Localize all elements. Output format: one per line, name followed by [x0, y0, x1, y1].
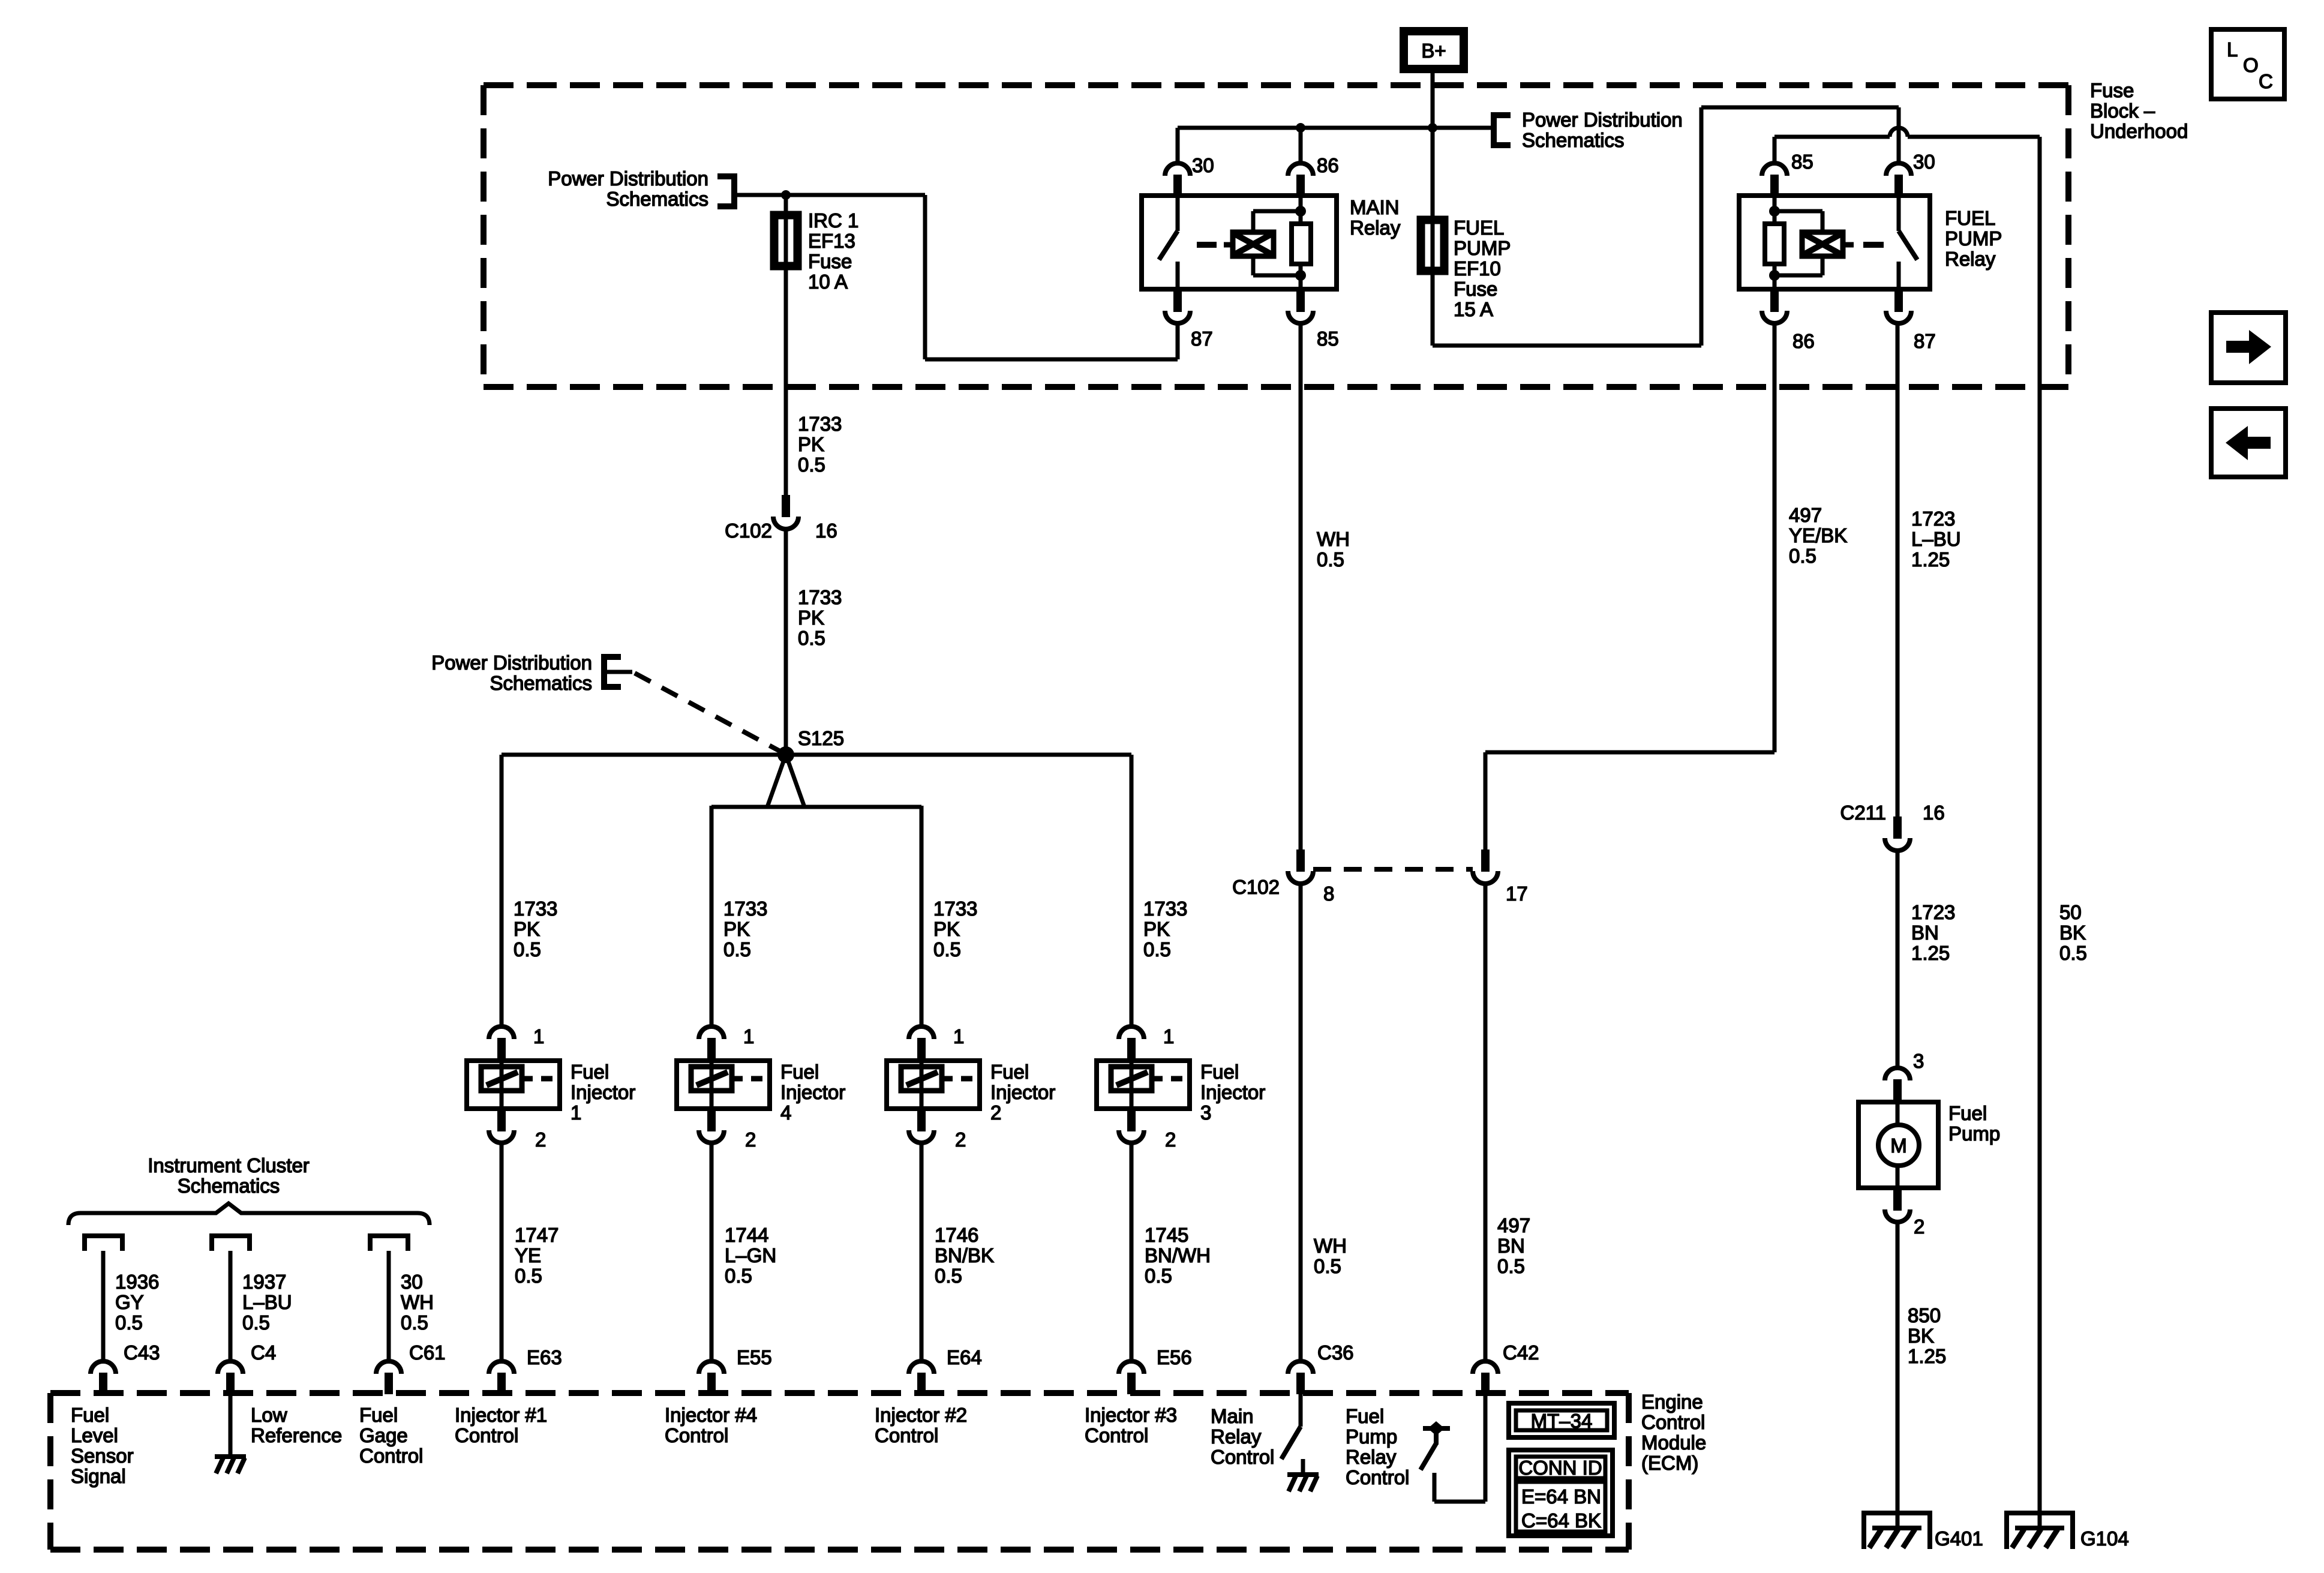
svg-text:Control: Control — [875, 1424, 938, 1446]
svg-text:EF13: EF13 — [808, 230, 855, 252]
svg-text:Signal: Signal — [71, 1465, 126, 1487]
svg-text:Pump: Pump — [1346, 1425, 1397, 1448]
svg-text:PUMP: PUMP — [1454, 237, 1511, 259]
svg-text:C=64 BK: C=64 BK — [1521, 1509, 1601, 1532]
svg-text:1746: 1746 — [935, 1224, 978, 1246]
svg-text:Underhood: Underhood — [2090, 120, 2188, 142]
svg-text:YE/BK: YE/BK — [1789, 524, 1847, 547]
svg-text:Main: Main — [1211, 1405, 1254, 1427]
svg-text:PK: PK — [933, 918, 960, 940]
svg-text:1733: 1733 — [798, 413, 842, 435]
svg-text:10 A: 10 A — [808, 271, 848, 293]
svg-text:1733: 1733 — [723, 897, 767, 920]
svg-text:2: 2 — [1914, 1215, 1924, 1238]
svg-text:0.5: 0.5 — [723, 938, 751, 960]
svg-text:2: 2 — [1165, 1128, 1176, 1151]
svg-text:1936: 1936 — [115, 1271, 159, 1293]
svg-text:WH: WH — [1314, 1235, 1347, 1257]
svg-text:0.5: 0.5 — [935, 1265, 962, 1287]
svg-text:CONN ID: CONN ID — [1518, 1457, 1602, 1479]
svg-text:30: 30 — [401, 1271, 423, 1293]
svg-text:Fuel: Fuel — [1346, 1405, 1384, 1427]
svg-text:0.5: 0.5 — [798, 454, 825, 476]
svg-text:Fuel: Fuel — [990, 1061, 1029, 1083]
svg-text:850: 850 — [1908, 1304, 1941, 1326]
svg-text:Fuel: Fuel — [1200, 1061, 1239, 1083]
svg-text:497: 497 — [1789, 504, 1822, 526]
svg-text:0.5: 0.5 — [115, 1311, 143, 1334]
svg-text:Injector #4: Injector #4 — [665, 1404, 757, 1426]
svg-text:Injector: Injector — [1200, 1081, 1265, 1103]
svg-text:0.5: 0.5 — [1789, 545, 1816, 567]
svg-text:1937: 1937 — [242, 1271, 286, 1293]
svg-text:B+: B+ — [1421, 40, 1446, 62]
svg-text:Block –: Block – — [2090, 100, 2155, 122]
svg-text:2: 2 — [745, 1128, 756, 1151]
svg-text:Power Distribution: Power Distribution — [431, 652, 592, 674]
svg-text:C4: C4 — [251, 1341, 276, 1364]
svg-text:3: 3 — [1913, 1050, 1924, 1072]
svg-text:Fuse: Fuse — [808, 250, 852, 272]
svg-text:0.5: 0.5 — [1145, 1265, 1172, 1287]
svg-text:Schematics: Schematics — [1522, 129, 1625, 151]
svg-text:BN/BK: BN/BK — [935, 1244, 994, 1266]
svg-text:Fuel: Fuel — [1948, 1102, 1987, 1124]
svg-text:MT–34: MT–34 — [1531, 1410, 1593, 1432]
svg-text:C43: C43 — [124, 1341, 160, 1364]
svg-text:L: L — [2227, 38, 2238, 61]
svg-text:Power Distribution: Power Distribution — [1522, 109, 1683, 131]
svg-text:0.5: 0.5 — [2059, 942, 2087, 964]
svg-text:0.5: 0.5 — [515, 1265, 542, 1287]
svg-text:BK: BK — [2059, 921, 2086, 944]
svg-text:1747: 1747 — [515, 1224, 559, 1246]
svg-text:30: 30 — [1192, 154, 1214, 176]
svg-text:Fuse: Fuse — [1454, 278, 1497, 300]
svg-text:L–GN: L–GN — [725, 1244, 776, 1266]
svg-text:C211: C211 — [1840, 801, 1886, 824]
svg-text:(ECM): (ECM) — [1641, 1452, 1698, 1474]
svg-text:Engine: Engine — [1641, 1391, 1703, 1413]
svg-text:15 A: 15 A — [1454, 298, 1493, 320]
svg-text:Control: Control — [1346, 1466, 1409, 1488]
svg-text:0.5: 0.5 — [798, 627, 825, 649]
svg-text:Gage: Gage — [359, 1424, 408, 1446]
svg-text:0.5: 0.5 — [1314, 1255, 1341, 1277]
svg-text:497: 497 — [1497, 1214, 1530, 1236]
svg-text:G104: G104 — [2080, 1527, 2129, 1550]
svg-text:Control: Control — [455, 1424, 518, 1446]
svg-text:Fuel: Fuel — [359, 1404, 398, 1426]
svg-text:1: 1 — [953, 1025, 964, 1047]
svg-text:E=64 BN: E=64 BN — [1521, 1485, 1601, 1508]
svg-text:BN: BN — [1911, 921, 1939, 944]
svg-text:E55: E55 — [737, 1346, 772, 1368]
svg-text:0.5: 0.5 — [242, 1311, 270, 1334]
svg-text:YE: YE — [515, 1244, 541, 1266]
svg-text:BN/WH: BN/WH — [1145, 1244, 1211, 1266]
svg-text:G401: G401 — [1935, 1527, 1983, 1550]
svg-text:PK: PK — [514, 918, 540, 940]
svg-text:4: 4 — [780, 1101, 791, 1124]
svg-text:Injector #2: Injector #2 — [875, 1404, 967, 1426]
svg-text:0.5: 0.5 — [514, 938, 541, 960]
svg-text:1744: 1744 — [725, 1224, 768, 1246]
svg-text:8: 8 — [1323, 882, 1334, 905]
svg-text:PK: PK — [798, 433, 824, 455]
svg-text:86: 86 — [1317, 154, 1339, 176]
svg-text:C: C — [2259, 70, 2273, 92]
svg-text:Injector: Injector — [990, 1081, 1055, 1103]
svg-text:0.5: 0.5 — [933, 938, 961, 960]
svg-text:87: 87 — [1191, 328, 1213, 350]
svg-text:Relay: Relay — [1346, 1446, 1397, 1468]
svg-text:2: 2 — [955, 1128, 966, 1151]
svg-text:C61: C61 — [409, 1341, 446, 1364]
svg-text:2: 2 — [535, 1128, 546, 1151]
svg-text:85: 85 — [1791, 151, 1813, 173]
svg-text:1: 1 — [743, 1025, 754, 1047]
svg-text:1733: 1733 — [514, 897, 557, 920]
svg-text:BN: BN — [1497, 1235, 1525, 1257]
svg-text:Schematics: Schematics — [606, 188, 708, 210]
svg-text:Fuse: Fuse — [2090, 79, 2134, 101]
svg-text:1723: 1723 — [1911, 901, 1955, 923]
svg-text:0.5: 0.5 — [1497, 1255, 1525, 1277]
svg-text:E64: E64 — [947, 1346, 982, 1368]
svg-text:L–BU: L–BU — [242, 1291, 292, 1313]
svg-text:C36: C36 — [1317, 1341, 1354, 1364]
svg-text:Injector #3: Injector #3 — [1085, 1404, 1177, 1426]
svg-text:Schematics: Schematics — [178, 1175, 280, 1197]
svg-text:Pump: Pump — [1948, 1122, 2000, 1145]
svg-text:1733: 1733 — [798, 586, 842, 608]
svg-text:Control: Control — [359, 1445, 423, 1467]
svg-text:C102: C102 — [1232, 876, 1280, 898]
svg-text:PK: PK — [798, 607, 824, 629]
svg-text:85: 85 — [1317, 328, 1339, 350]
svg-text:Module: Module — [1641, 1431, 1706, 1454]
svg-text:Control: Control — [1211, 1446, 1274, 1468]
svg-text:PK: PK — [723, 918, 750, 940]
svg-text:BK: BK — [1908, 1325, 1934, 1347]
svg-text:1.25: 1.25 — [1908, 1345, 1946, 1367]
svg-text:3: 3 — [1200, 1101, 1211, 1124]
svg-text:Fuel: Fuel — [571, 1061, 609, 1083]
svg-text:O: O — [2243, 54, 2259, 76]
svg-text:1.25: 1.25 — [1911, 548, 1950, 571]
svg-text:17: 17 — [1506, 882, 1528, 905]
svg-text:Control: Control — [1641, 1411, 1705, 1433]
svg-text:1: 1 — [1163, 1025, 1174, 1047]
svg-text:WH: WH — [1317, 528, 1350, 550]
svg-text:Fuel: Fuel — [71, 1404, 109, 1426]
svg-text:Low: Low — [251, 1404, 287, 1426]
svg-text:Relay: Relay — [1945, 248, 1996, 270]
svg-text:C102: C102 — [725, 520, 772, 542]
svg-text:C42: C42 — [1503, 1341, 1539, 1364]
svg-text:MAIN: MAIN — [1350, 196, 1400, 218]
svg-text:FUEL: FUEL — [1945, 207, 1995, 229]
svg-text:0.5: 0.5 — [1143, 938, 1171, 960]
svg-text:1723: 1723 — [1911, 508, 1955, 530]
svg-text:Injector: Injector — [780, 1081, 845, 1103]
svg-text:16: 16 — [1923, 801, 1945, 824]
svg-text:S125: S125 — [798, 727, 844, 749]
svg-text:1733: 1733 — [1143, 897, 1187, 920]
svg-text:30: 30 — [1913, 151, 1935, 173]
svg-text:E63: E63 — [527, 1346, 562, 1368]
svg-text:1: 1 — [533, 1025, 544, 1047]
svg-text:Relay: Relay — [1211, 1425, 1262, 1448]
svg-text:E56: E56 — [1157, 1346, 1192, 1368]
svg-text:M: M — [1890, 1134, 1907, 1157]
svg-text:Control: Control — [1085, 1424, 1148, 1446]
svg-text:Schematics: Schematics — [490, 672, 592, 694]
svg-text:EF10: EF10 — [1454, 257, 1501, 280]
svg-text:16: 16 — [815, 520, 837, 542]
svg-text:1.25: 1.25 — [1911, 942, 1950, 964]
svg-text:Control: Control — [665, 1424, 728, 1446]
svg-text:Reference: Reference — [251, 1424, 342, 1446]
svg-text:WH: WH — [401, 1291, 434, 1313]
svg-text:Level: Level — [71, 1424, 118, 1446]
svg-text:L–BU: L–BU — [1911, 528, 1961, 550]
svg-text:Injector #1: Injector #1 — [455, 1404, 547, 1426]
svg-text:0.5: 0.5 — [401, 1311, 428, 1334]
svg-text:50: 50 — [2059, 901, 2082, 923]
svg-text:1: 1 — [571, 1101, 581, 1124]
svg-text:2: 2 — [990, 1101, 1001, 1124]
svg-text:PK: PK — [1143, 918, 1170, 940]
svg-text:Instrument Cluster: Instrument Cluster — [148, 1154, 310, 1176]
svg-text:Fuel: Fuel — [780, 1061, 819, 1083]
svg-text:Injector: Injector — [571, 1081, 635, 1103]
svg-text:86: 86 — [1792, 330, 1815, 352]
svg-text:1733: 1733 — [933, 897, 977, 920]
svg-text:FUEL: FUEL — [1454, 217, 1504, 239]
svg-text:0.5: 0.5 — [1317, 548, 1344, 571]
svg-text:Relay: Relay — [1350, 217, 1401, 239]
svg-text:Sensor: Sensor — [71, 1445, 134, 1467]
svg-text:Power Distribution: Power Distribution — [548, 167, 708, 190]
svg-text:GY: GY — [115, 1291, 144, 1313]
svg-text:87: 87 — [1914, 330, 1936, 352]
svg-text:IRC 1: IRC 1 — [808, 209, 858, 232]
svg-text:1745: 1745 — [1145, 1224, 1188, 1246]
svg-text:0.5: 0.5 — [725, 1265, 752, 1287]
svg-text:PUMP: PUMP — [1945, 227, 2002, 250]
